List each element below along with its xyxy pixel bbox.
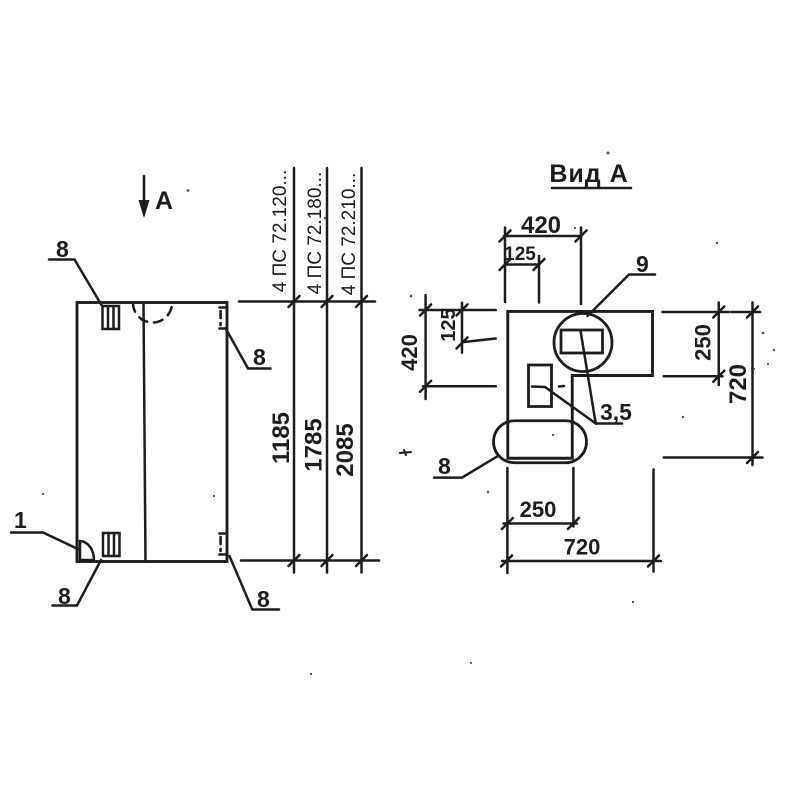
svg-text:720: 720 xyxy=(725,364,752,404)
svg-text:8: 8 xyxy=(253,344,266,370)
leader 8 top-right xyxy=(226,329,271,370)
bottom dim 720 xyxy=(501,535,661,567)
bottom extension lines (Вид А) xyxy=(507,468,653,573)
embed detail 8 top-right dashed xyxy=(220,308,227,329)
dimension line 4ПС72.180 / 1785 xyxy=(301,168,333,573)
leader 3,5 xyxy=(532,331,632,426)
svg-text:125: 125 xyxy=(438,308,460,341)
stray scan mark xyxy=(400,450,411,455)
L-shape outline (Вид А) xyxy=(508,311,653,458)
right dim 250 vertical xyxy=(663,303,761,386)
embed detail 8 top-left xyxy=(103,306,120,329)
dimension line 4ПС72.120 / 1185 xyxy=(268,168,300,573)
top dim 125 xyxy=(500,244,545,303)
stadium slot 8 xyxy=(494,421,587,463)
dimension line 4ПС72.210 / 2085 xyxy=(332,168,367,573)
svg-text:3,5: 3,5 xyxy=(600,399,632,425)
title Вид А xyxy=(549,160,631,188)
svg-text:4 ПС 72.210...: 4 ПС 72.210... xyxy=(339,173,360,295)
embed detail 8 bottom-right dashed xyxy=(220,534,227,555)
left dim 420 vertical xyxy=(397,295,496,399)
svg-text:1185: 1185 xyxy=(268,412,295,464)
circle detail 9 xyxy=(554,314,612,372)
svg-text:4 ПС 72.120...: 4 ПС 72.120... xyxy=(270,170,291,292)
leader 8 stadium xyxy=(434,453,497,479)
svg-text:8: 8 xyxy=(56,236,69,262)
left dim 125 vertical xyxy=(438,303,496,353)
svg-text:2085: 2085 xyxy=(332,423,359,476)
corner detail 1 xyxy=(80,541,94,560)
leader 9 xyxy=(588,251,656,316)
svg-text:720: 720 xyxy=(564,535,601,560)
svg-text:250: 250 xyxy=(520,497,557,522)
svg-text:8: 8 xyxy=(257,586,270,612)
view direction arrow xyxy=(139,176,150,218)
scan specks xyxy=(42,152,775,676)
right dim 720 vertical xyxy=(664,303,763,466)
leader 1 bottom-left corner xyxy=(11,507,79,550)
embed detail 8 bottom-left xyxy=(103,533,120,556)
svg-text:9: 9 xyxy=(636,251,649,277)
extension line bottom (plan) xyxy=(241,559,379,562)
svg-text:4 ПС 72.180...: 4 ПС 72.180... xyxy=(305,172,326,294)
svg-text:8: 8 xyxy=(58,583,71,609)
svg-text:420: 420 xyxy=(521,212,561,239)
leader 8 bottom-right xyxy=(230,556,280,612)
svg-text:420: 420 xyxy=(397,334,422,371)
svg-text:250: 250 xyxy=(691,324,716,361)
svg-text:1: 1 xyxy=(14,507,27,533)
small rect detail xyxy=(529,365,565,407)
svg-text:125: 125 xyxy=(504,244,536,265)
leader 8 bottom-left xyxy=(53,560,102,609)
window rect inside circle xyxy=(561,330,603,353)
top dim 420 xyxy=(500,212,587,304)
svg-text:1785: 1785 xyxy=(301,418,328,471)
dashed semicircle opening xyxy=(133,303,172,323)
svg-text:А: А xyxy=(155,187,173,215)
svg-text:Вид А: Вид А xyxy=(549,160,628,188)
svg-text:8: 8 xyxy=(438,453,451,479)
bottom dim 250 xyxy=(502,497,579,529)
panel joint line xyxy=(144,303,146,562)
extension line top (plan) xyxy=(239,300,375,303)
panel outline (plan view) xyxy=(77,303,227,562)
leader 8 top-left xyxy=(49,236,102,305)
